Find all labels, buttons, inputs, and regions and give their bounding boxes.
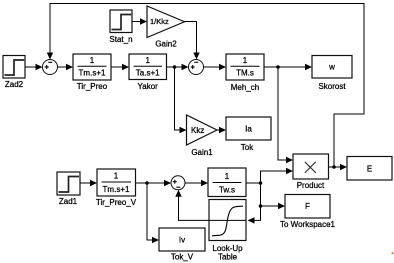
svg-text:Zad2: Zad2	[5, 80, 24, 89]
svg-text:Ia: Ia	[245, 125, 252, 134]
svg-text:TM.s: TM.s	[236, 69, 254, 78]
svg-text:Tw.s: Tw.s	[219, 186, 235, 195]
sum junction sum3	[171, 176, 185, 190]
svg-text:To Workspace1: To Workspace1	[280, 220, 336, 229]
sum junction sum1	[43, 60, 58, 75]
wire branch to F	[261, 203, 286, 209]
display block Tok	[226, 117, 271, 152]
transfer block Meh_ch	[226, 54, 264, 92]
wire Stat_n to Gain2	[132, 18, 147, 24]
step source Zad1	[57, 172, 80, 206]
wire Look-Up Table output to sum3 bottom	[175, 190, 209, 221]
wire branch down to Product input 1	[278, 67, 293, 163]
wire down to Look-Up Table input	[248, 183, 261, 224]
svg-text:Zad1: Zad1	[59, 197, 78, 206]
display block Skorost	[312, 56, 352, 92]
display block Iv (Tok_V)	[159, 228, 205, 262]
wire Tw.s output to junction	[246, 182, 261, 184]
svg-text:Table: Table	[218, 253, 238, 262]
wire Tir_Preo to Yakor	[111, 64, 129, 70]
svg-text:Ta.s+1: Ta.s+1	[136, 69, 160, 78]
wire branch down to Gain1	[175, 67, 187, 133]
svg-text:1: 1	[243, 56, 248, 65]
wire Meh_ch to Skorost	[264, 64, 312, 70]
product block Product	[293, 154, 329, 190]
step source Stat_n	[109, 10, 132, 44]
svg-text:F: F	[305, 202, 310, 211]
svg-text:Iv: Iv	[179, 235, 185, 244]
junction node on Zad1 control wire	[145, 181, 149, 185]
svg-text:Tok: Tok	[241, 143, 254, 152]
wire Zad2 to sum1	[25, 64, 43, 70]
junction node at F branch	[259, 204, 263, 208]
junction node on Product output	[332, 165, 336, 169]
transfer block 1/Tw.s	[208, 168, 246, 197]
transfer block Tir_Preo_V	[96, 169, 137, 207]
svg-text:Product: Product	[297, 181, 325, 190]
svg-text:1: 1	[225, 172, 230, 181]
svg-text:Tm.s+1: Tm.s+1	[79, 69, 106, 78]
svg-text:Tm.s+1: Tm.s+1	[103, 185, 130, 194]
svg-text:Tir_Preo: Tir_Preo	[77, 82, 108, 91]
wire Gain2 down to sum2 top	[185, 22, 200, 60]
feedback wire E to sum1 (top loop)	[47, 4, 364, 168]
display block E	[347, 157, 392, 181]
svg-text:Gain1: Gain1	[191, 148, 213, 157]
wire branch down to Iv	[147, 183, 159, 243]
junction node on speed wire	[276, 65, 280, 69]
wire Yakor to sum2	[167, 64, 189, 70]
svg-text:1: 1	[145, 56, 150, 65]
sum junction sum2	[189, 60, 204, 75]
svg-text:1: 1	[114, 172, 119, 181]
svg-text:Skorost: Skorost	[318, 82, 346, 91]
wire up to Product input 2	[261, 168, 294, 183]
svg-text:Gain2: Gain2	[155, 40, 177, 49]
wire Zad1 to Tir_Preo_V	[80, 180, 97, 186]
svg-text:Stat_n: Stat_n	[109, 35, 132, 44]
svg-text:w: w	[328, 62, 335, 71]
transfer block Yakor	[129, 54, 167, 91]
wire Tir_Preo_V to sum3	[136, 180, 172, 186]
wire Gain1 to Tok	[217, 127, 226, 133]
gain block Gain2	[147, 6, 185, 49]
svg-text:E: E	[367, 164, 372, 173]
svg-text:Meh_ch: Meh_ch	[231, 83, 259, 92]
stray mark bottom right	[392, 252, 394, 254]
transfer block Tir_Preo	[73, 54, 111, 91]
look-up table block	[209, 200, 246, 262]
svg-text:1: 1	[90, 56, 95, 65]
svg-text:1/Kkz: 1/Kkz	[150, 17, 169, 26]
wire sum1 to Tir_Preo	[58, 64, 74, 70]
svg-text:Tir_Preo_V: Tir_Preo_V	[96, 198, 137, 207]
svg-text:Yakor: Yakor	[138, 82, 159, 91]
display block F (To Workspace1)	[280, 195, 336, 230]
wire sum3 to Tw.s block	[185, 180, 208, 186]
junction node on armature current wire	[173, 65, 177, 69]
wire sum2 to Meh_ch	[204, 64, 227, 70]
junction node at Tw.s output	[259, 181, 263, 185]
wire Product to E	[329, 164, 348, 170]
gain block Gain1	[187, 115, 218, 157]
svg-text:Kkz: Kkz	[191, 126, 204, 135]
svg-text:Tok_V: Tok_V	[171, 253, 194, 262]
step source Zad2	[3, 56, 25, 90]
